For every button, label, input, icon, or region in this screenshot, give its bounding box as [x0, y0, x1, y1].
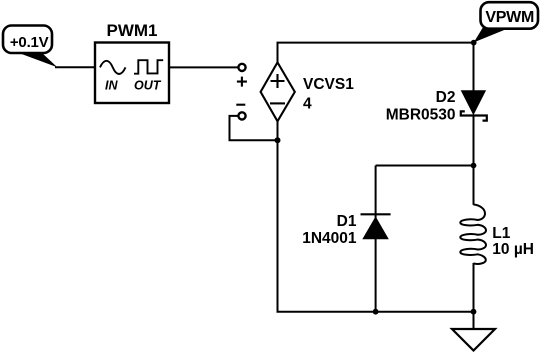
svg-text:MBR0530: MBR0530: [386, 106, 456, 123]
svg-text:IN: IN: [105, 78, 118, 92]
svg-text:+0.1V: +0.1V: [10, 34, 49, 51]
svg-text:VPWM: VPWM: [485, 9, 534, 26]
svg-text:D2: D2: [436, 89, 456, 106]
svg-text:4: 4: [303, 96, 312, 113]
svg-text:D1: D1: [337, 213, 357, 230]
svg-text:10 µH: 10 µH: [492, 241, 534, 258]
svg-text:PWM1: PWM1: [107, 21, 158, 40]
svg-text:VCVS1: VCVS1: [303, 76, 354, 93]
svg-text:L1: L1: [492, 225, 510, 242]
svg-text:OUT: OUT: [134, 78, 162, 92]
svg-text:1N4001: 1N4001: [302, 230, 357, 247]
